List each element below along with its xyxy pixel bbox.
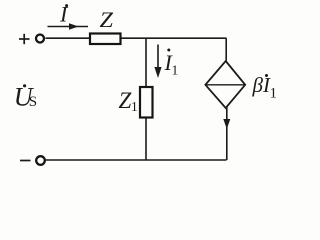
svg-text:S: S	[29, 94, 37, 110]
svg-text:βI: βI	[252, 73, 271, 97]
svg-text:Z: Z	[119, 88, 132, 113]
svg-text:1: 1	[131, 99, 138, 114]
svg-text:Z: Z	[100, 7, 114, 32]
svg-text:1: 1	[172, 63, 179, 78]
svg-text:1: 1	[270, 86, 278, 102]
